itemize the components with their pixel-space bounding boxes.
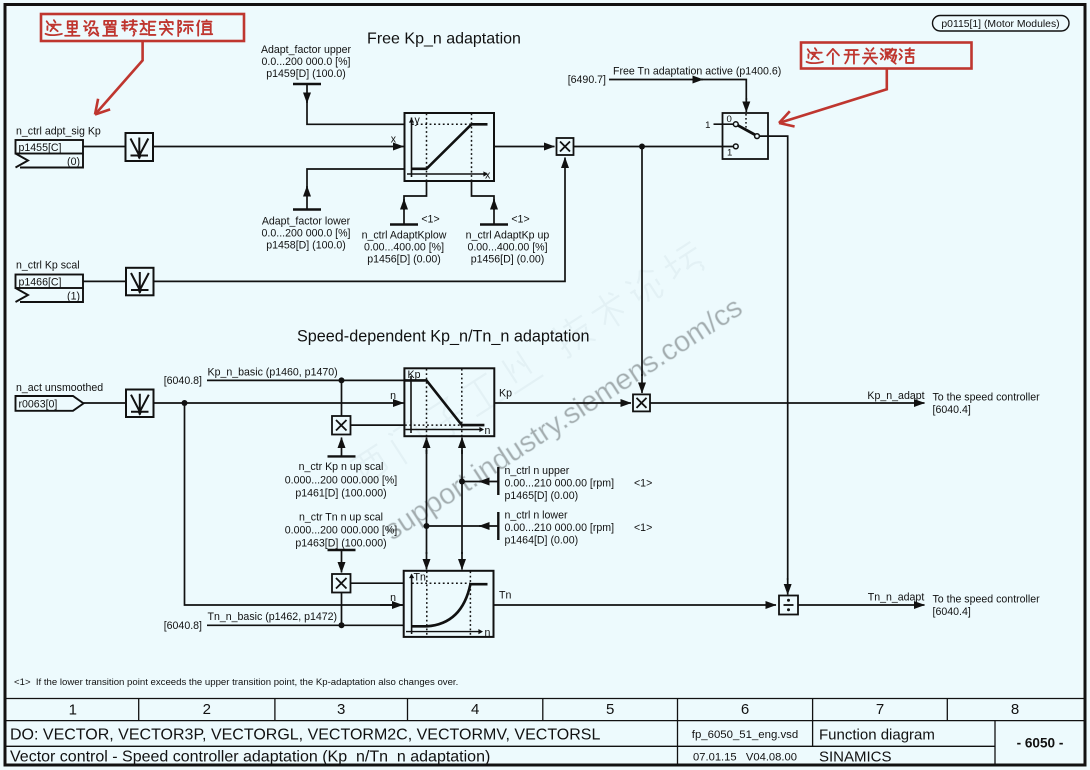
svg-text:1: 1: [69, 702, 77, 719]
svg-text:Tn_n_adapt: Tn_n_adapt: [868, 592, 925, 604]
p1464 terminal bar: [497, 512, 499, 540]
svg-text:n: n: [390, 592, 396, 604]
svg-text:Free Tn adaptation active (p14: Free Tn adaptation active (p1400.6): [613, 66, 781, 78]
wire Kp_n_basic into Kp block: [207, 379, 404, 381]
multiplier X1: [557, 138, 574, 155]
multiplier X2: [633, 394, 650, 411]
svg-text:0.0...200 000.0 [%]: 0.0...200 000.0 [%]: [262, 56, 351, 68]
svg-text:n_ctrl n upper: n_ctrl n upper: [505, 465, 570, 477]
param n_ctrl n lower p1464: [505, 510, 615, 547]
svg-text:[6040.8]: [6040.8]: [164, 375, 202, 387]
param Adapt_factor upper p1459: [261, 44, 352, 80]
signal [6040.8] Kp_n_basic: [164, 375, 202, 387]
svg-text:8: 8: [1011, 701, 1019, 718]
svg-text:Kp_n_basic (p1460, p1470): Kp_n_basic (p1460, p1470): [208, 367, 338, 379]
svg-text:0.0...200 000.0 [%]: 0.0...200 000.0 [%]: [262, 228, 351, 240]
svg-text:SINAMICS: SINAMICS: [819, 749, 892, 766]
wire p1463 down into X4: [341, 550, 343, 573]
note mark 1 left: [421, 214, 439, 226]
wire n_act to Kp block n input: [154, 390, 404, 403]
svg-text:0.00...210 000.00 [rpm]: 0.00...210 000.00 [rpm]: [505, 522, 615, 534]
svg-text:n_ctrl AdaptKp up: n_ctrl AdaptKp up: [466, 230, 550, 242]
svg-text:0.00...400.00 [%]: 0.00...400.00 [%]: [467, 242, 547, 254]
svg-text:0.00...400.00 [%]: 0.00...400.00 [%]: [364, 242, 444, 254]
svg-text:[6040.8]: [6040.8]: [164, 620, 202, 632]
wire p1455 to smoothing box: [83, 146, 126, 148]
p1458 terminal bar: [293, 208, 321, 210]
multiplier X4 (p1463 scaling): [332, 574, 351, 593]
param Adapt_factor lower p1458: [262, 216, 351, 252]
wire ramp output to multiplier X1: [494, 146, 555, 148]
svg-text:<1> If the lower transition p: <1> If the lower transition point exceed…: [14, 677, 458, 688]
wire junction down to multiplier X2: [641, 147, 643, 394]
svg-text:Tn_n_basic (p1462, p1472): Tn_n_basic (p1462, p1472): [208, 611, 338, 623]
wire Kp_n_adapt output: [650, 402, 925, 404]
svg-text:Adapt_factor upper: Adapt_factor upper: [261, 44, 352, 56]
junction node Kp_n_basic: [339, 377, 345, 383]
red annotation box 1: [41, 14, 244, 41]
svg-text:fp_6050_51_eng.vsd: fp_6050_51_eng.vsd: [692, 729, 798, 741]
red annotation text 2 (Chinese: this switch activates): [807, 48, 915, 64]
svg-text:0.000...200 000.000 [%]: 0.000...200 000.000 [%]: [285, 475, 398, 487]
label Kp_n_adapt: [867, 390, 924, 402]
svg-text:Tn: Tn: [414, 572, 426, 584]
red annotation text 1 (Chinese: set torque actual value here): [46, 20, 213, 36]
svg-text:To the speed controller: To the speed controller: [933, 594, 1041, 606]
label to speed controller 1: [933, 392, 1041, 417]
watermark diagonal: [348, 237, 748, 547]
svg-text:p1466[C]: p1466[C]: [19, 276, 62, 288]
svg-text:p1459[D] (100.0): p1459[D] (100.0): [266, 68, 346, 80]
footer page number 6050: [1017, 736, 1064, 751]
footer table lines: [7, 721, 996, 765]
svg-text:n_act unsmoothed: n_act unsmoothed: [16, 382, 103, 394]
footer column number band: [7, 699, 1084, 721]
label to speed controller 2: [933, 594, 1041, 619]
wire X4 output to Tn block: [351, 582, 404, 584]
wire ramp bottom left to p1456 low: [404, 181, 427, 225]
svg-text:n_ctrl Kp scal: n_ctrl Kp scal: [16, 260, 80, 272]
svg-text:n: n: [390, 390, 396, 402]
wire ramp bottom right to p1456 up: [472, 181, 495, 225]
p0115 pill top right: [933, 16, 1070, 32]
connector r0063[0] n_act unsmoothed: [16, 382, 104, 411]
wire p1458 up into ramp block lower input: [307, 169, 405, 210]
svg-text:n_ctr Kp n up scal: n_ctr Kp n up scal: [299, 461, 384, 473]
svg-text:1: 1: [705, 120, 710, 131]
red annotation box 2: [801, 43, 972, 69]
svg-text:Adapt_factor lower: Adapt_factor lower: [262, 216, 351, 228]
label Tn_n_adapt: [868, 592, 925, 604]
wire Tn_n_basic into Tn block: [207, 624, 404, 626]
wire junction down to multiplier X3: [341, 380, 343, 416]
svg-text:Free Kp_n adaptation: Free Kp_n adaptation: [367, 31, 521, 48]
junction node at X1 output: [639, 144, 645, 150]
svg-text:Tn: Tn: [499, 590, 511, 602]
footer vsd file cell: [692, 729, 798, 741]
junction node lower: [424, 523, 430, 529]
svg-text:r0063[0]: r0063[0]: [19, 398, 58, 410]
wire p1466 scaling to X1 bottom: [154, 158, 566, 282]
p1465 terminal bar: [497, 467, 499, 495]
wire Kp block output to X2: [494, 388, 631, 404]
smoothing symbol box 1: [126, 133, 154, 161]
label Tn_n_basic: [208, 611, 338, 623]
param n_ctrl AdaptKp up p1456: [466, 230, 550, 266]
svg-text:3: 3: [337, 701, 345, 718]
svg-text:4: 4: [471, 701, 479, 718]
footer column numbers 1-8: [69, 701, 1020, 719]
junction node upper: [459, 479, 465, 485]
wire Tn block output to divider: [494, 590, 777, 606]
svg-text:[6490.7]: [6490.7]: [568, 74, 606, 86]
svg-text:<1>: <1>: [421, 214, 439, 226]
svg-text:[6040.4]: [6040.4]: [933, 606, 971, 618]
svg-text:5: 5: [606, 701, 614, 718]
svg-text:0.000...200 000.000 [%]: 0.000...200 000.000 [%]: [285, 525, 398, 537]
svg-text:n_ctrl n lower: n_ctrl n lower: [505, 510, 568, 522]
svg-text:p1465[D] (0.00): p1465[D] (0.00): [505, 490, 579, 502]
svg-text:Function diagram: Function diagram: [819, 727, 935, 744]
wire Tn_n_adapt output: [798, 604, 925, 606]
svg-text:To the speed controller: To the speed controller: [933, 392, 1041, 404]
connector p1455[C] n_ctrl adpt_sig Kp: [16, 126, 101, 168]
svg-text:p1455[C]: p1455[C]: [19, 142, 62, 154]
footer title line: [10, 749, 490, 766]
red arrow 1: [95, 41, 143, 115]
svg-text:p0115[1] (Motor Modules): p0115[1] (Motor Modules): [941, 19, 1059, 30]
label Kp_n_basic: [208, 367, 338, 379]
svg-text:07.01.15 V04.08.00: 07.01.15 V04.08.00: [693, 752, 797, 764]
p1459 terminal bar: [293, 83, 321, 85]
wire p1459 down into ramp block upper input: [307, 84, 405, 124]
svg-text:- 6050 -: - 6050 -: [1017, 736, 1064, 751]
svg-text:Kp_n_adapt: Kp_n_adapt: [867, 390, 924, 402]
wire control signal to switch: [609, 80, 746, 113]
switch input 1 stub: [705, 120, 733, 131]
wire X4 bottom to Tn_n_basic junction: [341, 593, 343, 626]
svg-text:(1): (1): [67, 290, 80, 302]
svg-text:x: x: [485, 170, 491, 182]
wire x input to ramp block: [153, 134, 404, 147]
param n_ctrl n upper p1465: [505, 465, 615, 502]
footer SINAMICS cell: [819, 749, 892, 766]
divider block: [779, 596, 798, 615]
svg-text:0.00...210 000.00 [rpm]: 0.00...210 000.00 [rpm]: [505, 478, 615, 490]
vertical double arrow left (n transition): [426, 438, 428, 570]
param n_ctrl AdaptKplow p1456: [362, 230, 447, 266]
svg-text:p1461[D] (100.000): p1461[D] (100.000): [295, 488, 386, 500]
note mark 1 upper: [634, 478, 652, 490]
p1456 low terminal bar: [390, 223, 418, 225]
Kp characteristic block: [404, 368, 494, 437]
ramp characteristic block: [405, 113, 495, 182]
svg-text:1: 1: [727, 148, 732, 159]
red arrow 2: [779, 69, 887, 127]
footer Function diagram cell: [819, 727, 935, 744]
svg-text:DO: VECTOR, VECTOR3P, VECTORGL: DO: VECTOR, VECTOR3P, VECTORGL, VECTORM2…: [10, 727, 600, 744]
junction node Tn_n_basic: [339, 622, 345, 628]
param n_ctr Kp n up scal p1461: [285, 461, 398, 500]
wire r0063 to smoothing box 3: [84, 402, 127, 404]
wire n_ctrl n upper to vertical: [462, 481, 498, 483]
signal [6040.8] Tn_n_basic: [164, 620, 202, 632]
param n_ctr Tn n up scal p1463: [285, 512, 398, 550]
signal [6490.7] label: [568, 74, 606, 86]
svg-text:p1464[D] (0.00): p1464[D] (0.00): [505, 535, 579, 547]
svg-text:n: n: [485, 627, 491, 639]
title Speed-dependent Kp_n/Tn_n adaptation: [297, 328, 590, 346]
wire X3 output to Kp block: [351, 424, 405, 426]
svg-text:p1456[D] (0.00): p1456[D] (0.00): [471, 254, 545, 266]
svg-text:Speed-dependent Kp_n/Tn_n adap: Speed-dependent Kp_n/Tn_n adaptation: [297, 328, 590, 346]
svg-text:<1>: <1>: [634, 478, 652, 490]
svg-text:n_ctrl AdaptKplow: n_ctrl AdaptKplow: [362, 230, 447, 242]
svg-text:6: 6: [741, 701, 749, 718]
svg-text:p1458[D] (100.0): p1458[D] (100.0): [266, 240, 346, 252]
smoothing symbol box 2: [126, 268, 154, 296]
svg-text:p1463[D] (100.000): p1463[D] (100.000): [295, 538, 386, 550]
Tn characteristic block: [404, 571, 494, 639]
p1463 terminal bar: [328, 549, 356, 551]
p1461 terminal bar: [328, 455, 356, 457]
title Free Kp_n adaptation: [367, 31, 521, 48]
wire switch output down to divider: [760, 136, 788, 594]
vertical double arrow right (n transition): [461, 438, 463, 570]
svg-text:7: 7: [876, 701, 884, 718]
wire p1461 up into X3: [341, 438, 343, 457]
svg-text:<1>: <1>: [511, 214, 529, 226]
label Free Tn adaptation active: [613, 66, 781, 78]
svg-text:[6040.4]: [6040.4]: [933, 404, 971, 416]
note mark 1 lower: [634, 522, 652, 534]
svg-text:n_ctrl adpt_sig Kp: n_ctrl adpt_sig Kp: [16, 126, 101, 138]
svg-text:<1>: <1>: [634, 522, 652, 534]
note mark 1 right: [511, 214, 529, 226]
svg-text:n: n: [485, 425, 491, 437]
switch block: [723, 113, 769, 159]
footer date version cell: [693, 752, 797, 764]
svg-text:x: x: [391, 134, 397, 146]
connector p1466[C] n_ctrl Kp scal: [16, 260, 84, 303]
svg-text:2: 2: [203, 701, 211, 718]
smoothing symbol box 3: [126, 390, 154, 418]
svg-text:(0): (0): [67, 156, 80, 168]
footnote <1>: [14, 677, 458, 688]
wire X1 to switch with junction: [574, 146, 734, 148]
footer DO line: [10, 727, 600, 744]
multiplier X3 (p1461 scaling): [332, 416, 351, 435]
p1456 up terminal bar: [480, 223, 508, 225]
svg-text:Vector control - Speed control: Vector control - Speed controller adapta…: [10, 749, 490, 766]
wire p1466 to smoothing box 2: [83, 280, 126, 282]
svg-text:n_ctr Tn n up scal: n_ctr Tn n up scal: [299, 512, 383, 524]
svg-text:p1456[D] (0.00): p1456[D] (0.00): [367, 254, 441, 266]
wire n_act down to Tn block: [185, 403, 404, 605]
svg-text:Kp: Kp: [499, 388, 512, 400]
wire n_ctrl n lower to vertical: [427, 525, 499, 527]
junction node n_act: [182, 400, 188, 406]
